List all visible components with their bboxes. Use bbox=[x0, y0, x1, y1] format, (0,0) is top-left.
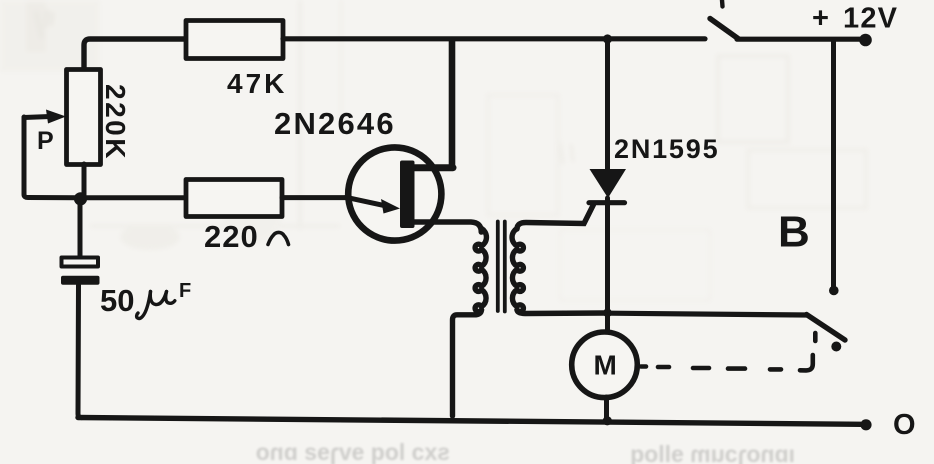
wire top rail right bbox=[737, 37, 861, 42]
svg-text:O: O bbox=[893, 409, 916, 441]
svg-text:F: F bbox=[179, 280, 191, 302]
node junction bottom rail motor bbox=[603, 416, 612, 425]
transistor emitter arrow bbox=[346, 197, 400, 213]
transformer core bbox=[498, 222, 505, 312]
wire riser base-one to top rail bbox=[449, 40, 456, 168]
svg-text:ıɒnoɿɔum ɘlloq: ıɒnoɿɔum ɘlloq bbox=[630, 441, 795, 464]
svg-text:M: M bbox=[594, 350, 617, 381]
switch S2 lever bbox=[807, 315, 846, 341]
wire bottom rail bbox=[78, 418, 861, 425]
transistor base-one lead bbox=[413, 164, 453, 171]
node junction SCR top bbox=[603, 34, 612, 43]
wire top rail middle bbox=[283, 36, 705, 41]
label 50uF bbox=[100, 280, 191, 318]
wire base-two lead to transformer primary top bbox=[413, 222, 481, 232]
wire capacitor leg lower bbox=[78, 285, 82, 418]
svg-text:2N2646: 2N2646 bbox=[274, 106, 396, 141]
svg-text:B: B bbox=[778, 208, 810, 257]
wire transformer primary bottom to bottom rail bbox=[453, 310, 482, 416]
svg-text:220K: 220K bbox=[100, 84, 131, 161]
node O terminal dot bbox=[860, 419, 871, 430]
wire secondary top to SCR gate bbox=[517, 205, 594, 230]
SCR cathode wire down bbox=[605, 198, 610, 330]
capacitor 50uF bottom plate bbox=[61, 276, 100, 285]
resistor 220 ohm bbox=[186, 180, 282, 217]
svg-text:2N1595: 2N1595 bbox=[614, 134, 719, 164]
motor M bbox=[572, 332, 638, 398]
potentiometer 220K body bbox=[67, 70, 101, 165]
transformer secondary winding bbox=[512, 229, 523, 312]
SCR cathode bar bbox=[589, 200, 625, 205]
SCR 2N1595 anode wire bbox=[605, 41, 610, 170]
svg-text:47K: 47K bbox=[227, 68, 287, 99]
wire motor bottom bbox=[604, 397, 609, 419]
wire capacitor leg upper bbox=[78, 199, 83, 257]
wire to switch B row bbox=[610, 313, 807, 315]
dashed mechanical link motor to switch bbox=[641, 333, 815, 370]
svg-text:50: 50 bbox=[100, 283, 134, 318]
svg-text:220: 220 bbox=[204, 219, 259, 254]
SCR 2N1595 triangle bbox=[590, 169, 627, 198]
resistor 47K bbox=[186, 21, 283, 59]
svg-text:+ 12V: + 12V bbox=[812, 3, 898, 35]
node right rail end dot bbox=[829, 286, 839, 296]
node junction dot left bbox=[74, 192, 87, 205]
transistor 2N2646 body bbox=[348, 147, 441, 240]
node junction secondary bottom bbox=[603, 308, 612, 317]
label 220 ohm bbox=[204, 219, 289, 254]
transistor 2N2646 base bar bbox=[400, 161, 415, 229]
wire right rail B bbox=[831, 41, 836, 288]
node +12V terminal dot bbox=[859, 34, 872, 47]
svg-text:P: P bbox=[37, 127, 54, 155]
wire secondary bottom bbox=[517, 310, 605, 314]
capacitor 50uF top plate bbox=[62, 258, 99, 267]
potentiometer wiper arrow bbox=[24, 110, 66, 124]
switch S1 lever bbox=[710, 0, 738, 39]
svg-text:sxɔ loq ɘvɿɘƨ ɒno: sxɔ loq ɘvɿɘƨ ɒno bbox=[256, 439, 450, 464]
wire emitter row left bbox=[80, 195, 186, 200]
wire wiper loop bbox=[24, 117, 79, 198]
wire emitter lead right bbox=[282, 195, 347, 200]
wire top-left corner and riser to potentiometer bbox=[84, 39, 186, 70]
wire pot bottom to junction bbox=[82, 164, 87, 198]
switch S2 contact dot bbox=[831, 342, 841, 352]
transformer primary winding bbox=[475, 229, 486, 312]
